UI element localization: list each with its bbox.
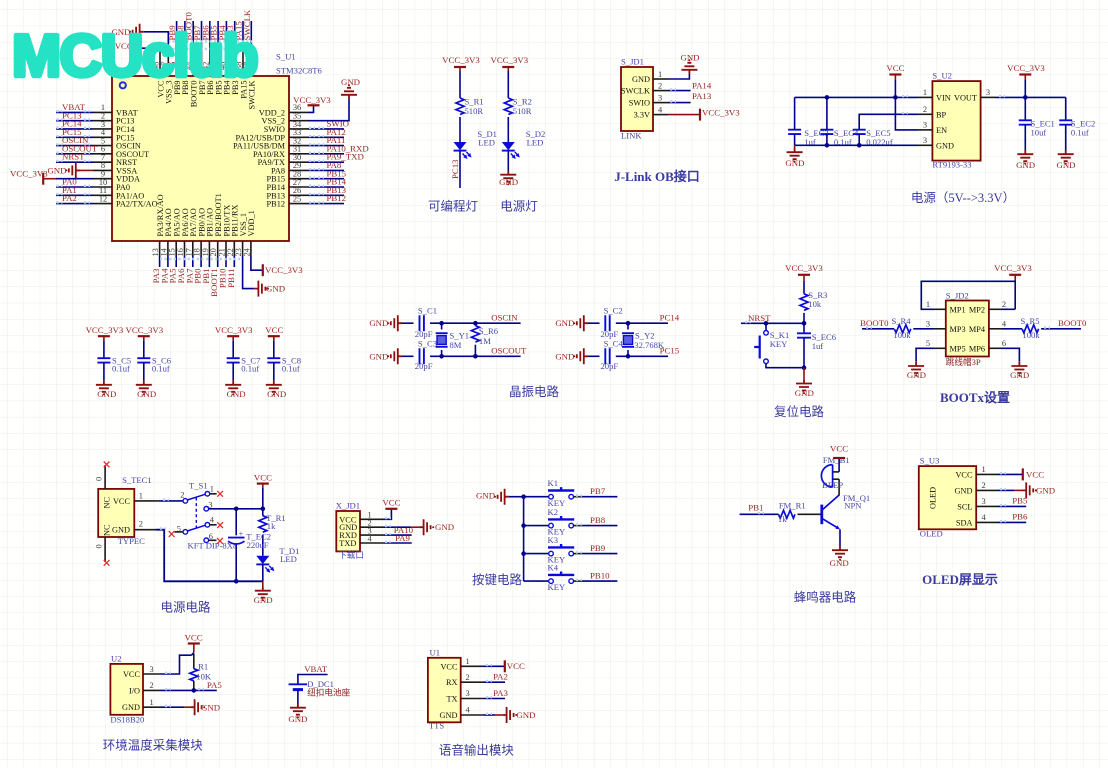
svg-text:VCC_3V3: VCC_3V3 xyxy=(442,55,480,65)
wire T_S1 pin6 xyxy=(209,539,217,541)
wire battery to ground xyxy=(288,690,307,724)
module U1 body xyxy=(428,658,461,723)
svg-text:0: 0 xyxy=(95,544,104,548)
svg-text:VCC_3V3: VCC_3V3 xyxy=(1007,63,1045,73)
svg-text:按键电路: 按键电路 xyxy=(472,572,523,587)
switch T_S1 pin3 xyxy=(204,500,213,511)
wire collector xyxy=(838,479,840,495)
ground below S_C5 xyxy=(96,363,116,399)
X_JD1 pin1 wire to VCC xyxy=(360,498,401,520)
svg-text:220uF: 220uF xyxy=(247,540,269,550)
ground at S_C3 xyxy=(369,348,402,364)
net label PA14 xyxy=(692,80,712,90)
svg-text:PB9: PB9 xyxy=(590,543,606,553)
MCU pin 40 PB4 with net PB4 xyxy=(217,21,232,95)
wire T_S1 pin3 to VCC node xyxy=(209,508,263,510)
ground at MCU pin 47 VSS_3 xyxy=(111,24,168,51)
svg-text:NRST: NRST xyxy=(62,152,85,162)
svg-text:PB12: PB12 xyxy=(327,193,347,203)
junction key bus row 3 xyxy=(521,551,526,556)
svg-text:PA2: PA2 xyxy=(493,672,508,682)
wire EC2 drop xyxy=(1065,97,1067,120)
ground at S_C2 xyxy=(555,315,588,331)
svg-text:GND: GND xyxy=(97,389,116,399)
caption BOOTx设置 xyxy=(940,390,1010,405)
svg-text:1: 1 xyxy=(658,70,662,79)
battery D_DC1 xyxy=(289,679,351,698)
wire OSCIN rail xyxy=(430,322,521,324)
svg-text:1: 1 xyxy=(982,465,986,474)
net label BOOT0 right xyxy=(1058,318,1087,328)
MCU pin 8 VSSA xyxy=(93,161,137,175)
compile mark dots below MCU xyxy=(160,258,240,260)
ground below S_C6 xyxy=(136,363,156,399)
caption 语音输出模块 xyxy=(439,743,515,758)
MCU pin 15 PA5/AO with net PA5 xyxy=(168,208,182,283)
S_U3 pin3 wire xyxy=(976,505,1026,506)
power VCC at MCU pin 48 xyxy=(115,41,160,54)
MCU pin 18 PB0/AO with net PB0 xyxy=(193,208,207,284)
S_JD2 MP labels xyxy=(950,305,986,353)
svg-text:3: 3 xyxy=(926,319,930,328)
X_JD1 designator xyxy=(336,501,360,511)
power VCC_3V3 for S_R2 xyxy=(490,55,528,98)
wire JD2 pin1 loop xyxy=(921,281,1009,309)
capacitor T_EC2 220uF xyxy=(228,509,271,582)
wire VOUT rail xyxy=(981,96,1066,97)
svg-text:GND: GND xyxy=(1056,160,1075,170)
wire C2 left xyxy=(588,322,600,324)
svg-text:2: 2 xyxy=(180,491,184,500)
key S_K1 top lead xyxy=(765,323,767,330)
S_JD1 pin1 wire to ground xyxy=(653,74,689,79)
net label OSCOUT xyxy=(491,346,527,356)
ground below reset xyxy=(795,368,814,398)
svg-text:2: 2 xyxy=(923,105,927,114)
svg-text:1k: 1k xyxy=(778,514,787,524)
S_TEC1 comment TYPEC xyxy=(118,536,145,546)
svg-text:T_S1: T_S1 xyxy=(189,480,208,490)
svg-text:OLED: OLED xyxy=(920,528,943,538)
svg-text:K4: K4 xyxy=(548,563,559,573)
svg-text:PB8: PB8 xyxy=(590,515,606,525)
MCU pin 48 VCC xyxy=(152,51,166,98)
X_JD1 pin name RXD xyxy=(339,527,371,541)
wire R4 to pin3 xyxy=(913,328,946,330)
S_JD2 pin numbers xyxy=(926,300,1007,348)
svg-text:510R: 510R xyxy=(465,106,484,116)
svg-text:SDA: SDA xyxy=(956,518,973,527)
MCU pin 39 PB3 with net PB3 xyxy=(225,21,240,95)
resistor R1 10K xyxy=(190,662,212,682)
MCU pin 23 VSS_1 xyxy=(234,213,248,257)
svg-text:VCC: VCC xyxy=(254,473,272,483)
S_JD1 pin4 wire to VCC_3V3 xyxy=(653,107,740,120)
junction Y1 bottom xyxy=(439,354,444,359)
switch T_S1 pole B xyxy=(177,515,215,534)
svg-text:VCC_3V3: VCC_3V3 xyxy=(785,263,823,273)
no-connect X top xyxy=(104,462,110,468)
LED T_D1 xyxy=(256,546,299,573)
net label PB9 xyxy=(590,543,606,553)
S_JD1 pin2 wire xyxy=(653,89,691,90)
junction VOUT/EC1 xyxy=(1023,95,1028,100)
svg-text:GND: GND xyxy=(907,370,926,380)
power VCC_3V3 above S_C6 xyxy=(125,325,163,358)
MCU pin 24 VDD_1 xyxy=(242,210,256,256)
MCU pin 13 PA3/RX/AO with net PA3 xyxy=(151,194,165,283)
svg-text:510R: 510R xyxy=(513,106,532,116)
svg-text:PA2/TX/AO: PA2/TX/AO xyxy=(116,200,158,209)
power VCC_3V3 at MCU pin 9 VDDA xyxy=(10,168,93,184)
wire emitter to ground xyxy=(830,529,849,568)
svg-text:EN: EN xyxy=(936,126,947,135)
power VCC_3V3 at VOUT xyxy=(1007,63,1045,97)
ground at S_C4 xyxy=(555,348,588,364)
power VCC above R1 xyxy=(185,632,203,652)
S_U2 pin names xyxy=(936,93,977,150)
wire S_D1 to PC13 xyxy=(459,151,461,188)
svg-text:0.1uf: 0.1uf xyxy=(112,364,130,374)
MCU pin 16 PA6/AO with net PA6 xyxy=(176,208,190,283)
junction Y2 bottom xyxy=(626,354,631,359)
S_U3 OLED vertical label xyxy=(929,487,938,509)
power VCC_3V3 at MCU pin 36 VDD_2 xyxy=(293,95,331,112)
capacitor S_C5 0.1uf xyxy=(97,356,131,374)
svg-text:MP2: MP2 xyxy=(969,305,985,314)
svg-text:1: 1 xyxy=(466,657,470,666)
S_U3 designator xyxy=(920,456,940,466)
junction R1/PA5 xyxy=(192,688,197,693)
capacitor S_EC2 0.1uf xyxy=(1059,119,1095,138)
U1 pin name TX xyxy=(446,689,469,703)
sensor U2 body xyxy=(110,664,143,715)
svg-text:U1: U1 xyxy=(430,647,441,657)
ground for keys xyxy=(476,489,524,505)
ground below S_D2 xyxy=(499,171,518,187)
U1 pin name GND xyxy=(440,706,471,720)
power VCC above S_U2 xyxy=(886,63,904,97)
ground below S_EC1 xyxy=(1016,125,1035,170)
MCU pin 36 VDD_2 xyxy=(259,103,308,117)
caption 蜂鸣器电路 xyxy=(794,590,857,605)
MCU pin 1 VBAT with net VBAT xyxy=(56,102,138,117)
regulator S_U2 body xyxy=(932,81,980,161)
capacitor S_C2 20pF xyxy=(601,306,623,340)
MCU pin 10 PA0 with net PA0 xyxy=(56,177,130,192)
svg-text:PC15: PC15 xyxy=(660,346,680,356)
svg-text:S_Y2: S_Y2 xyxy=(635,331,655,341)
wire R1 to I/O xyxy=(193,681,195,691)
S_JD1 pin name SWIO xyxy=(629,93,662,107)
svg-text:VCC: VCC xyxy=(440,662,458,671)
svg-text:VCC: VCC xyxy=(955,470,973,479)
wire EC4 drop xyxy=(826,97,828,129)
svg-text:VCC: VCC xyxy=(382,498,400,508)
S_JD1 pin3 wire xyxy=(653,101,691,102)
svg-text:VCC_3V3: VCC_3V3 xyxy=(125,325,163,335)
S_U3 pin name SCL xyxy=(957,497,985,511)
svg-text:VCC_3V3: VCC_3V3 xyxy=(86,325,124,335)
svg-text:蜂鸣器电路: 蜂鸣器电路 xyxy=(794,590,857,605)
net label PB5 xyxy=(1012,495,1028,505)
MCU pin 27 PB14 with net PB14 xyxy=(267,177,347,192)
svg-text:VCC_3V3: VCC_3V3 xyxy=(215,325,253,335)
no-connect X at T_S1 pin5 xyxy=(169,531,175,537)
net label PA5 xyxy=(207,680,222,690)
svg-text:GND: GND xyxy=(632,75,650,84)
MCU pin 44 BOOT0 with net BOOT0 xyxy=(184,12,199,108)
svg-text:3: 3 xyxy=(466,689,470,698)
svg-text:12: 12 xyxy=(99,194,107,203)
connector S_JD1 body xyxy=(621,67,653,131)
svg-text:SWCLK: SWCLK xyxy=(621,87,650,96)
wire GND rail xyxy=(795,134,933,145)
junction EC4 tap xyxy=(825,95,830,100)
svg-text:3: 3 xyxy=(982,497,986,506)
svg-text:LED: LED xyxy=(280,554,297,564)
svg-text:PA9: PA9 xyxy=(395,533,410,543)
svg-text:DS18B20: DS18B20 xyxy=(110,715,144,725)
svg-text:3.3V: 3.3V xyxy=(634,111,650,120)
S_TEC1 pin names xyxy=(103,497,131,536)
MCU pin 17 PA7/AO with net PA7 xyxy=(184,208,198,283)
key S_K1 bottom lead xyxy=(766,364,804,368)
X_JD1 pin name GND xyxy=(339,519,371,533)
net label PA9 xyxy=(395,533,410,543)
svg-text:S_U1: S_U1 xyxy=(276,52,296,62)
svg-text:0.1uf: 0.1uf xyxy=(1071,128,1089,138)
ground at S_JD1 pin1 xyxy=(680,53,699,75)
switch T_S1 pole A xyxy=(180,484,214,503)
svg-text:100k: 100k xyxy=(893,330,911,340)
U2 pin1 wire xyxy=(143,706,190,707)
svg-text:VCC_3V3: VCC_3V3 xyxy=(265,265,303,275)
X_JD1 pin name TXD xyxy=(339,534,372,548)
capacitor S_C6 0.1uf xyxy=(137,356,171,374)
net label PB1 xyxy=(748,503,763,513)
MCU pin 45 PB8 with net PB8 xyxy=(175,21,190,95)
MCU pin 9 VDDA xyxy=(93,170,140,184)
svg-text:GND: GND xyxy=(1010,370,1029,380)
wire C1 left xyxy=(402,322,414,324)
MCU pin 25 PB12 with net PB12 xyxy=(267,193,347,208)
svg-text:24: 24 xyxy=(242,247,251,256)
svg-text:VCC: VCC xyxy=(886,63,904,73)
ground at JD2 pin6 xyxy=(1010,362,1029,380)
svg-text:2: 2 xyxy=(466,673,470,682)
resistor S_R6 1M xyxy=(471,323,498,356)
S_JD2 comment 跳线帽3P xyxy=(946,356,981,367)
svg-text:10k: 10k xyxy=(808,299,822,309)
ground below power circuit xyxy=(254,581,273,605)
svg-text:VCC_3V3: VCC_3V3 xyxy=(702,107,740,117)
U1 pin3 wire xyxy=(461,697,505,698)
svg-text:GND: GND xyxy=(680,53,699,63)
power VCC above T_R1 xyxy=(254,473,272,509)
ground at JD2 pin5 xyxy=(907,362,926,380)
MCU pin 37 SWCLK with net SWCLK xyxy=(242,9,257,109)
junction key bus K1 xyxy=(521,494,526,499)
capacitor S_C1 20pF xyxy=(415,306,437,340)
wire NRST xyxy=(741,322,804,323)
svg-text:BOOT0: BOOT0 xyxy=(860,318,889,328)
MCU pin 46 PB9 with net PB9 xyxy=(167,21,182,95)
svg-text:KEY: KEY xyxy=(548,582,566,592)
MCU designator S_U1 xyxy=(276,52,296,62)
svg-text:SCL: SCL xyxy=(957,502,972,511)
net label PC13 xyxy=(450,159,460,179)
U1 comment TTS xyxy=(429,721,444,731)
wire C3 left xyxy=(402,355,414,357)
wire VCC to R1 xyxy=(193,654,195,669)
U2 pin names xyxy=(122,665,154,712)
S_U3 pin4 wire xyxy=(976,521,1026,522)
svg-text:NC: NC xyxy=(103,497,112,509)
LED S_D1 xyxy=(454,129,497,159)
ground at MCU pin 8 VSSA xyxy=(47,162,93,178)
net label PB8 xyxy=(590,515,606,525)
svg-text:GND: GND xyxy=(254,595,273,605)
wire S_D2 to ground xyxy=(507,151,509,171)
wire T_S1 pin1 xyxy=(210,493,217,495)
svg-text:PA13: PA13 xyxy=(692,91,712,101)
junction bus EC2 xyxy=(234,579,239,584)
MCU pin 20 PB2/BOOT1 with net BOOT1 xyxy=(209,193,223,297)
svg-text:PB10: PB10 xyxy=(590,570,610,580)
svg-text:6: 6 xyxy=(1002,339,1006,348)
capacitor S_EC5 0.022uf xyxy=(853,128,893,147)
svg-text:TTS: TTS xyxy=(429,721,444,731)
svg-text:6: 6 xyxy=(209,532,213,541)
wire PB1 to FM_R1 xyxy=(740,513,779,514)
svg-text:PA3: PA3 xyxy=(493,688,508,698)
MCU pin 43 PB7 with net PB7 xyxy=(192,21,207,95)
svg-text:VCC: VCC xyxy=(113,497,131,506)
net label PB7 xyxy=(590,486,606,496)
junction reset bottom xyxy=(802,365,807,370)
X_JD1 comment 下载口 xyxy=(338,549,364,560)
wire BP to EC5 xyxy=(859,113,932,130)
ground at MCU pin 35 VSS_2 xyxy=(308,77,360,120)
svg-text:LED: LED xyxy=(478,138,495,148)
svg-text:3: 3 xyxy=(923,136,927,145)
svg-text:OSCOUT: OSCOUT xyxy=(491,346,527,356)
S_U3 pin1 wire to VCC xyxy=(976,468,1044,480)
push button S_K1 KEY xyxy=(754,330,789,364)
ground below S_EC2 xyxy=(1056,125,1075,170)
svg-text:S_JD2: S_JD2 xyxy=(946,290,969,300)
svg-text:GND: GND xyxy=(516,710,535,720)
svg-text:S_Y1: S_Y1 xyxy=(450,331,470,341)
caption J-Link OB接口 xyxy=(614,169,700,184)
MCU pin 11 PA1/AO with net PA1 xyxy=(56,185,144,200)
S_TEC1 pin2 wire xyxy=(134,519,262,581)
svg-text:KEY: KEY xyxy=(770,339,788,349)
S_JD1 pin name SWCLK xyxy=(621,81,662,95)
U2 designator xyxy=(111,654,122,664)
svg-text:GND: GND xyxy=(122,703,140,712)
net label PA10 xyxy=(394,525,414,535)
junction GND rail EC5 xyxy=(857,143,862,148)
compile mark dots above MCU xyxy=(168,42,252,50)
wire C4 left xyxy=(588,355,600,357)
T_S1 comment KFT DIP-8X8 xyxy=(188,541,238,551)
svg-text:2: 2 xyxy=(1002,300,1006,309)
ground at MCU pin 23 VSS_1 xyxy=(243,256,285,297)
svg-text:NPN: NPN xyxy=(844,501,862,511)
no-connect X at T_S1 pin6 xyxy=(217,538,223,544)
svg-text:0.1uf: 0.1uf xyxy=(282,364,300,374)
wire R3 to NRST node xyxy=(803,313,805,323)
svg-text:TYPEC: TYPEC xyxy=(118,536,145,546)
wire T_S1 pin5 xyxy=(175,531,184,533)
MCU pin 32 PA11/USB/DM with net PA11 xyxy=(233,135,345,150)
svg-text:GND: GND xyxy=(555,318,574,328)
svg-text:VCC: VCC xyxy=(507,661,525,671)
U1 pin4 wire to ground xyxy=(461,714,503,715)
ground at S_C1 xyxy=(369,315,402,331)
svg-text:1uf: 1uf xyxy=(812,341,824,351)
caption 按键电路 xyxy=(472,572,523,587)
no-connect X at T_S1 pin4 xyxy=(217,522,223,528)
svg-text:环境温度采集模块: 环境温度采集模块 xyxy=(103,738,204,753)
svg-text:X_JD1: X_JD1 xyxy=(336,501,360,511)
svg-text:OLED: OLED xyxy=(929,487,938,509)
S_U3 comment OLED xyxy=(920,528,943,538)
svg-text:S_R4: S_R4 xyxy=(891,316,911,326)
svg-text:U2: U2 xyxy=(111,654,122,664)
svg-text:PB11: PB11 xyxy=(226,269,236,288)
svg-text:GND: GND xyxy=(201,703,220,713)
svg-text:GND: GND xyxy=(785,158,804,168)
svg-text:K3: K3 xyxy=(548,535,559,545)
S_TEC1 designator xyxy=(122,475,152,485)
svg-text:OLED屏显示: OLED屏显示 xyxy=(922,572,998,587)
svg-text:RX: RX xyxy=(446,678,458,687)
svg-text:+: + xyxy=(239,528,244,538)
switch T_S1 pin6 xyxy=(204,532,213,543)
op-amp U1 body: MCU S_U1 yellow box xyxy=(112,76,289,241)
svg-text:MP1: MP1 xyxy=(950,305,966,314)
net label PA2 xyxy=(493,672,508,682)
svg-text:MP6: MP6 xyxy=(969,344,985,353)
U2 pin2 wire xyxy=(143,689,217,690)
resistor T_R1 1k xyxy=(259,513,286,532)
svg-text:3: 3 xyxy=(658,93,662,102)
svg-text:S_R5: S_R5 xyxy=(1020,316,1039,326)
svg-text:20pF: 20pF xyxy=(415,361,433,371)
MCU pin 6 OSCOUT with net OSCOUT xyxy=(56,143,149,158)
junction EC2 tap xyxy=(234,507,239,512)
capacitor S_C8 0.1uf xyxy=(267,356,301,374)
resistor FM_R1 1k xyxy=(778,500,806,524)
svg-text:S_U2: S_U2 xyxy=(932,70,952,80)
MCU pin 47 VSS_3 xyxy=(160,51,174,104)
MCU part number STM32C8T6 xyxy=(276,66,323,76)
svg-text:S_JD1: S_JD1 xyxy=(621,57,644,67)
svg-text:GND: GND xyxy=(266,284,285,294)
power VCC_3V3 above S_C7 xyxy=(215,325,253,358)
S_U3 pin name VCC xyxy=(955,465,985,479)
capacitor S_EC6 1uf xyxy=(797,323,837,367)
ground below S_C7 xyxy=(225,363,245,399)
svg-text:GND: GND xyxy=(341,77,360,87)
wire EC1 drop xyxy=(1024,97,1026,120)
S_JD1 LINK label xyxy=(621,131,642,141)
svg-text:GND: GND xyxy=(440,711,458,720)
svg-text:VBAT: VBAT xyxy=(304,664,328,674)
